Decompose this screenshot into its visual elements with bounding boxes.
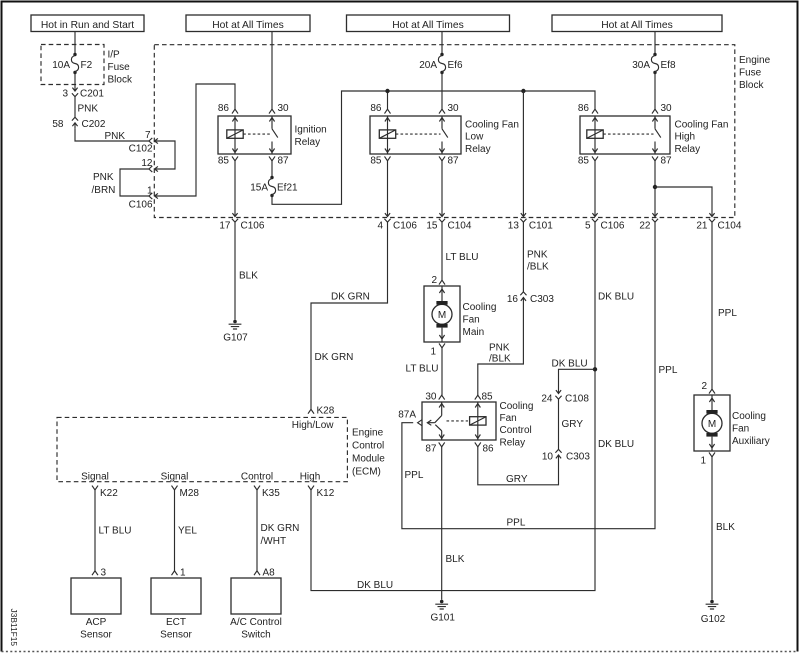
motor: Cooling Fan Auxiliary bbox=[694, 395, 730, 451]
svg-text:G107: G107 bbox=[223, 333, 248, 344]
fuse F2 10A bbox=[52, 53, 92, 74]
svg-text:17: 17 bbox=[219, 221, 231, 232]
connector ECM pin K22 bbox=[92, 486, 118, 499]
svg-text:Block: Block bbox=[739, 80, 764, 91]
wire: high relay pin 85 down to C106 pin 5 bbox=[594, 161, 596, 211]
wire BLK: fan auxiliary pin 1 to ground G102 bbox=[712, 457, 735, 600]
wire: fuse Ef8 to high relay pin 30 bbox=[654, 73, 656, 110]
svg-text:M28: M28 bbox=[180, 488, 200, 499]
wire DK GRN/WHT: ECM K35 to A/C control switch bbox=[257, 490, 299, 571]
I/P Fuse Block (dashed box) bbox=[41, 45, 104, 85]
svg-text:F2: F2 bbox=[81, 60, 93, 71]
svg-text:Cooling Fan: Cooling Fan bbox=[465, 119, 519, 130]
svg-text:Main: Main bbox=[463, 327, 485, 338]
relay: Ignition Relay (86/30/85/87) bbox=[218, 116, 291, 154]
wire: Hot at All Times to ignition relay pin 30 bbox=[271, 32, 273, 110]
svg-text:1: 1 bbox=[700, 456, 706, 467]
svg-text:87: 87 bbox=[278, 156, 290, 167]
wire YEL: ECM M28 to ECT sensor bbox=[175, 490, 198, 571]
svg-text:High/Low: High/Low bbox=[292, 420, 334, 431]
svg-text:DK GRN: DK GRN bbox=[331, 292, 370, 303]
connector C102 pin 7 bbox=[129, 130, 160, 155]
svg-text:Ef6: Ef6 bbox=[448, 60, 463, 71]
wire PNK: C201 to C202 bbox=[75, 97, 98, 118]
wire BLK: C106 pin 17 to ground G107 bbox=[235, 222, 258, 320]
svg-text:C201: C201 bbox=[80, 89, 104, 100]
svg-text:Ef21: Ef21 bbox=[277, 183, 298, 194]
svg-text:15A: 15A bbox=[250, 183, 268, 194]
svg-text:DK BLU: DK BLU bbox=[357, 580, 393, 591]
wire BLK: control relay pin 87 to ground G101 bbox=[442, 447, 465, 600]
junction: high relay 87 branch bbox=[653, 185, 657, 189]
svg-text:Engine: Engine bbox=[352, 428, 384, 439]
wire: ignition relay pin 87 to fuse Ef21 bbox=[271, 161, 273, 177]
wire: C106 pin 1 to ignition relay pin 86 bbox=[160, 84, 235, 196]
connector ACP sensor pin 3 bbox=[92, 568, 107, 579]
svg-text:C102: C102 bbox=[129, 144, 153, 155]
svg-text:1: 1 bbox=[147, 186, 153, 197]
svg-text:BLK: BLK bbox=[239, 271, 258, 282]
svg-text:Sensor: Sensor bbox=[80, 630, 112, 641]
wire: low relay pin 87 down to C104 pin 15 bbox=[441, 161, 443, 211]
node: Hot in Run and Start feed bbox=[31, 15, 144, 32]
svg-text:M: M bbox=[708, 419, 716, 430]
wire: Ef21 bus to relay coils 86 and C101 pin 13 bbox=[272, 91, 595, 204]
svg-text:G101: G101 bbox=[430, 613, 455, 624]
connector ECM pin K12 bbox=[308, 486, 335, 499]
svg-text:C106: C106 bbox=[129, 200, 153, 211]
svg-text:86: 86 bbox=[483, 444, 495, 455]
svg-text:30: 30 bbox=[661, 103, 673, 114]
svg-text:Sensor: Sensor bbox=[160, 630, 192, 641]
svg-text:3: 3 bbox=[101, 568, 107, 579]
svg-text:Control: Control bbox=[241, 472, 273, 483]
svg-text:Auxiliary: Auxiliary bbox=[732, 436, 770, 447]
connector A/C control switch pin A8 bbox=[254, 568, 275, 579]
svg-text:High: High bbox=[300, 472, 321, 483]
wire PNK/BLK: C303 pin 16 to control relay pin 85 bbox=[478, 303, 524, 395]
wire: branch to C104 pin 21 bbox=[655, 187, 712, 211]
svg-text:C303: C303 bbox=[566, 452, 590, 463]
svg-text:K28: K28 bbox=[317, 406, 335, 417]
svg-text:C303: C303 bbox=[530, 294, 554, 305]
svg-text:85: 85 bbox=[482, 392, 494, 403]
connector C102 pin 12 bbox=[141, 158, 160, 172]
svg-text:YEL: YEL bbox=[178, 526, 197, 537]
svg-text:/BLK: /BLK bbox=[489, 354, 511, 365]
svg-text:Fan: Fan bbox=[732, 424, 749, 435]
svg-text:PPL: PPL bbox=[718, 308, 737, 319]
svg-text:C108: C108 bbox=[565, 393, 589, 404]
wire LT BLU: fan main pin 1 to control relay pin 30 bbox=[406, 348, 443, 395]
wire GRY: C303 pin 10 to control relay pin 86 bbox=[478, 447, 559, 485]
svg-text:87: 87 bbox=[425, 444, 437, 455]
svg-text:Low: Low bbox=[465, 132, 484, 143]
svg-text:ECT: ECT bbox=[166, 617, 186, 628]
svg-text:Relay: Relay bbox=[295, 137, 321, 148]
svg-text:G102: G102 bbox=[701, 614, 726, 625]
svg-text:BLK: BLK bbox=[716, 522, 735, 533]
junction DK BLU branch to C108 bbox=[593, 367, 597, 371]
svg-text:PNK: PNK bbox=[93, 172, 114, 183]
wire: low relay pin 85 down to C106 pin 4 bbox=[387, 161, 389, 211]
svg-text:C106: C106 bbox=[393, 221, 417, 232]
svg-text:C202: C202 bbox=[82, 119, 106, 130]
svg-text:Fuse: Fuse bbox=[108, 62, 131, 73]
svg-text:High: High bbox=[675, 132, 696, 143]
svg-text:30A: 30A bbox=[632, 60, 650, 71]
connector ECT sensor pin 1 bbox=[172, 568, 187, 579]
connector C104 pin 15 bbox=[439, 211, 445, 222]
svg-text:30: 30 bbox=[448, 103, 460, 114]
svg-text:(ECM): (ECM) bbox=[352, 467, 381, 478]
A/C Control Switch bbox=[231, 578, 281, 614]
connector ECM pin K35 bbox=[254, 486, 280, 499]
relay: Cooling Fan High Relay bbox=[580, 116, 670, 154]
svg-text:Engine: Engine bbox=[739, 55, 771, 66]
svg-text:86: 86 bbox=[578, 103, 590, 114]
wire: ignition relay pin 85 down to C106 pin 17 bbox=[234, 161, 236, 211]
svg-text:24: 24 bbox=[541, 393, 553, 404]
svg-text:PNK: PNK bbox=[489, 343, 510, 354]
svg-text:Cooling: Cooling bbox=[732, 411, 766, 422]
ground G107 bbox=[223, 320, 248, 344]
svg-text:K35: K35 bbox=[262, 488, 280, 499]
svg-text:LT BLU: LT BLU bbox=[99, 526, 132, 537]
connector ECM pin K28 bbox=[308, 406, 335, 417]
wire: bus drop to low relay pin 86 bbox=[387, 91, 389, 109]
svg-text:15: 15 bbox=[426, 221, 438, 232]
node: Hot at All Times (ignition relay feed) bbox=[186, 15, 310, 32]
node: Hot at All Times (Ef8 feed) bbox=[552, 15, 722, 32]
wire PNK/BLK: C101 pin 13 to C303 pin 16 bbox=[523, 222, 549, 292]
wire: fuse F2 to connector C201 bbox=[74, 73, 76, 86]
svg-text:Relay: Relay bbox=[500, 437, 526, 448]
wire DK GRN: C106 pin 4 to ECM pin K28 bbox=[311, 222, 388, 409]
svg-text:Control: Control bbox=[500, 425, 532, 436]
svg-text:10: 10 bbox=[542, 452, 554, 463]
svg-text:Relay: Relay bbox=[465, 144, 491, 155]
svg-text:87: 87 bbox=[661, 156, 673, 167]
connector C108 pin 24 bbox=[541, 388, 589, 404]
svg-text:C104: C104 bbox=[448, 221, 472, 232]
svg-text:Control: Control bbox=[352, 441, 384, 452]
relay: Cooling Fan Control Relay (30/85/87A/87/86) bbox=[422, 402, 496, 440]
svg-text:Signal: Signal bbox=[81, 472, 109, 483]
Engine Fuse Block (dashed box) bbox=[154, 45, 735, 218]
svg-text:3: 3 bbox=[62, 89, 68, 100]
wire LT BLU: ECM K22 to ACP sensor bbox=[95, 490, 131, 571]
svg-text:GRY: GRY bbox=[562, 419, 584, 430]
svg-text:Hot at All Times: Hot at All Times bbox=[392, 20, 464, 31]
connector C106 pin 4 bbox=[384, 211, 390, 222]
svg-text:Fan: Fan bbox=[463, 315, 480, 326]
svg-text:Ef8: Ef8 bbox=[661, 60, 676, 71]
svg-text:ACP: ACP bbox=[86, 617, 107, 628]
connector C202 pin 58 bbox=[52, 117, 105, 130]
wire: C102 pin 7 to C102 pin 12 (engine side loop) bbox=[160, 141, 175, 169]
svg-text:30: 30 bbox=[278, 103, 290, 114]
svg-text:1: 1 bbox=[430, 347, 436, 358]
svg-text:Fuse: Fuse bbox=[739, 68, 762, 79]
connector C106 pin 17 bbox=[232, 211, 238, 222]
svg-text:PPL: PPL bbox=[507, 518, 526, 529]
ground G102 bbox=[701, 600, 726, 625]
ground G101 bbox=[430, 600, 455, 624]
svg-text:A/C Control: A/C Control bbox=[230, 617, 282, 628]
wire PPL: C104 pin 21 to fan auxiliary pin 2 bbox=[712, 222, 737, 389]
svg-text:DK BLU: DK BLU bbox=[598, 292, 634, 303]
connector C104 pin 21 bbox=[709, 211, 715, 222]
svg-text:LT BLU: LT BLU bbox=[446, 252, 479, 263]
svg-text:DK GRN: DK GRN bbox=[261, 523, 300, 534]
svg-text:Cooling: Cooling bbox=[500, 401, 534, 412]
connector C106 pin 5 bbox=[592, 211, 598, 222]
svg-text:PNK: PNK bbox=[105, 131, 126, 142]
svg-text:Hot in Run and Start: Hot in Run and Start bbox=[41, 20, 134, 31]
fuse Ef8 30A bbox=[632, 53, 676, 74]
wire DK BLU: C106 pin 5 down to DK BLU junction and bottom run to ECM K12 bbox=[311, 222, 634, 591]
svg-text:K22: K22 bbox=[100, 488, 118, 499]
connector C104 pin 22 bbox=[652, 211, 658, 222]
svg-text:1: 1 bbox=[180, 568, 186, 579]
wire PNK/BRN: C102 pin 12 to C106 pin 1 bbox=[92, 169, 149, 196]
fuse Ef21 15A bbox=[250, 176, 298, 197]
svg-text:/BLK: /BLK bbox=[527, 262, 549, 273]
junction on Ef21 bus at low relay 86 bbox=[385, 89, 389, 93]
svg-text:Cooling Fan: Cooling Fan bbox=[675, 119, 729, 130]
svg-text:4: 4 bbox=[377, 221, 383, 232]
connector ECM pin M28 bbox=[172, 486, 200, 499]
svg-text:Ignition: Ignition bbox=[295, 124, 327, 135]
svg-text:20A: 20A bbox=[419, 60, 437, 71]
svg-text:K12: K12 bbox=[317, 488, 335, 499]
svg-text:2: 2 bbox=[431, 275, 437, 286]
svg-text:85: 85 bbox=[578, 156, 590, 167]
ACP Sensor bbox=[71, 578, 121, 614]
svg-text:10A: 10A bbox=[52, 60, 70, 71]
svg-text:I/P: I/P bbox=[108, 50, 121, 61]
svg-text:85: 85 bbox=[370, 156, 382, 167]
svg-text:PNK: PNK bbox=[78, 104, 99, 115]
wire DK BLU: junction to C108 pin 24 bbox=[552, 359, 596, 389]
wire GRY: C108 pin 24 to C303 pin 10 bbox=[559, 399, 584, 449]
svg-text:87A: 87A bbox=[398, 410, 416, 421]
fuse Ef6 20A bbox=[419, 53, 463, 74]
svg-text:Signal: Signal bbox=[161, 472, 189, 483]
junction on Ef21 bus at C101 branch bbox=[521, 89, 525, 93]
svg-text:87: 87 bbox=[448, 156, 460, 167]
svg-text:Hot at All Times: Hot at All Times bbox=[212, 20, 284, 31]
svg-text:22: 22 bbox=[639, 221, 651, 232]
ECM: Engine Control Module (dashed box) bbox=[57, 417, 347, 481]
svg-text:PNK: PNK bbox=[527, 250, 548, 261]
svg-text:Switch: Switch bbox=[241, 630, 270, 641]
svg-text:DK GRN: DK GRN bbox=[315, 352, 354, 363]
ECT Sensor bbox=[151, 578, 201, 614]
svg-text:86: 86 bbox=[370, 103, 382, 114]
svg-text:PPL: PPL bbox=[405, 470, 424, 481]
svg-text:C106: C106 bbox=[601, 221, 625, 232]
svg-text:A8: A8 bbox=[263, 568, 276, 579]
svg-text:7: 7 bbox=[145, 130, 151, 141]
svg-text:21: 21 bbox=[696, 221, 708, 232]
relay: Cooling Fan Low Relay bbox=[370, 116, 461, 154]
svg-text:C101: C101 bbox=[529, 221, 553, 232]
svg-text:/WHT: /WHT bbox=[261, 536, 287, 547]
svg-text:M: M bbox=[438, 310, 446, 321]
svg-text:30: 30 bbox=[425, 392, 437, 403]
svg-text:BLK: BLK bbox=[446, 554, 465, 565]
connector C303 pin 10 bbox=[542, 449, 590, 462]
svg-text:Cooling: Cooling bbox=[463, 302, 497, 313]
svg-text:12: 12 bbox=[141, 158, 153, 169]
svg-text:86: 86 bbox=[218, 103, 230, 114]
wire: fuse Ef6 to low relay pin 30 bbox=[441, 73, 443, 110]
svg-text:Module: Module bbox=[352, 454, 385, 465]
svg-text:C106: C106 bbox=[241, 221, 265, 232]
svg-text:85: 85 bbox=[218, 156, 230, 167]
wire: bus to connector C101 pin 13 bbox=[522, 91, 524, 211]
svg-text:16: 16 bbox=[507, 294, 519, 305]
svg-text:Hot at All Times: Hot at All Times bbox=[601, 20, 673, 31]
svg-text:PPL: PPL bbox=[659, 365, 678, 376]
wire PNK: C202 to C102 pin 7 bbox=[75, 128, 149, 142]
wire: high relay pin 87 down to connector 22 bbox=[654, 161, 656, 211]
svg-text:5: 5 bbox=[585, 221, 591, 232]
wire: Hot at All Times to fuse Ef8 bbox=[654, 32, 656, 55]
motor: Cooling Fan Main bbox=[424, 286, 460, 342]
svg-text:Fan: Fan bbox=[500, 413, 517, 424]
wire LT BLU: C104 pin 15 to fan main pin 2 bbox=[442, 222, 478, 280]
svg-text:LT BLU: LT BLU bbox=[406, 364, 439, 375]
svg-text:13: 13 bbox=[508, 221, 520, 232]
connector C201 pin 3 bbox=[62, 86, 104, 100]
svg-text:Relay: Relay bbox=[675, 144, 701, 155]
svg-text:DK BLU: DK BLU bbox=[598, 439, 634, 450]
svg-text:2: 2 bbox=[701, 381, 707, 392]
svg-text:DK BLU: DK BLU bbox=[552, 359, 588, 370]
connector C106 pin 1 bbox=[129, 186, 160, 211]
svg-text:GRY: GRY bbox=[506, 474, 528, 485]
svg-text:/BRN: /BRN bbox=[92, 185, 116, 196]
svg-text:58: 58 bbox=[52, 119, 64, 130]
svg-text:J3B11F15: J3B11F15 bbox=[9, 609, 19, 647]
connector C101 pin 13 bbox=[520, 211, 526, 222]
svg-text:Block: Block bbox=[108, 75, 133, 86]
wire: Hot in Run and Start to fuse F2 bbox=[74, 32, 76, 55]
wire PPL: connector 22 to control relay pin 87A bbox=[402, 222, 678, 529]
wire: Hot at All Times to fuse Ef6 bbox=[441, 32, 443, 55]
connector C303 pin 16 bbox=[507, 292, 554, 305]
svg-text:C104: C104 bbox=[718, 221, 742, 232]
node: Hot at All Times (Ef6 feed) bbox=[347, 15, 510, 32]
